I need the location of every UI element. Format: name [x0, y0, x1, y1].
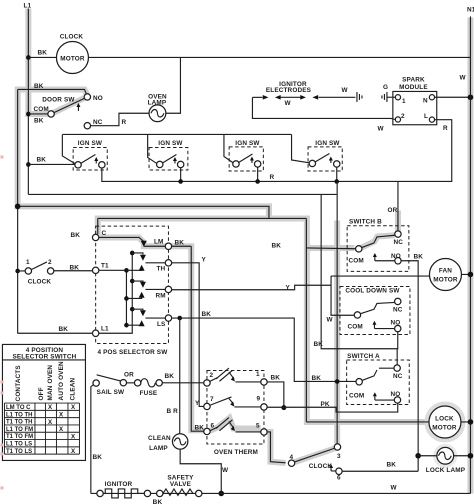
wire clock motor to N1 (top bus)	[88, 56, 470, 58]
node dot fan N1	[468, 272, 474, 278]
svg-text:LM TO C: LM TO C	[6, 405, 31, 411]
svg-text:N: N	[423, 97, 428, 104]
switch IGN SW 4	[292, 134, 343, 171]
svg-text:NO: NO	[391, 253, 401, 260]
dashed oven therm box	[207, 370, 264, 444]
node dot lock lamp junction	[415, 453, 421, 459]
svg-text:T1 TO LS: T1 TO LS	[6, 449, 32, 455]
svg-text:BK: BK	[386, 461, 396, 468]
svg-text:BK: BK	[270, 374, 280, 381]
svg-text:L1 TO TH: L1 TO TH	[6, 412, 33, 418]
wire fan motor feed	[331, 275, 429, 277]
svg-text:OVEN THERM: OVEN THERM	[214, 449, 258, 456]
svg-text:L1 TO LS: L1 TO LS	[6, 442, 32, 448]
wire LM contact line	[144, 245, 166, 247]
svg-text:COM: COM	[348, 257, 363, 264]
svg-text:IGN SW: IGN SW	[78, 140, 103, 147]
switch cool down sw	[340, 286, 410, 334]
svg-text:LAMP: LAMP	[148, 100, 167, 107]
node dot lock motor N1	[468, 419, 474, 425]
node dot PK junction	[281, 405, 286, 410]
wire switch B COM feed	[306, 247, 355, 250]
wire oven lamp to motor wire	[166, 57, 181, 113]
edge artifact marks	[0, 155, 3, 489]
lamp oven lamp	[148, 93, 167, 121]
wire clean lamp to bottom bus (W)	[180, 449, 221, 493]
svg-text:NC: NC	[393, 373, 403, 380]
table row labels	[6, 405, 33, 455]
svg-text:W: W	[390, 484, 397, 491]
svg-text:Y: Y	[201, 256, 206, 263]
svg-text:BK: BK	[164, 373, 174, 380]
motor lock motor	[429, 406, 461, 438]
lock lamp highlight ring	[435, 445, 456, 466]
wire electrodes return loop	[252, 97, 395, 119]
contacts RM row	[126, 281, 165, 298]
svg-text:L1: L1	[101, 325, 109, 332]
wire BK to clock motor	[28, 56, 56, 58]
wire fan motor to N1	[461, 273, 470, 275]
svg-text:NO: NO	[390, 319, 400, 326]
wire cool down COM feed from fan wire	[331, 276, 354, 315]
coil safety valve	[157, 475, 202, 497]
switch IGN SW 2	[148, 134, 188, 170]
svg-text:CLEAN: CLEAN	[69, 377, 76, 400]
switch A assembly	[347, 353, 410, 405]
svg-text:BK: BK	[34, 117, 44, 124]
svg-text:MOTOR: MOTOR	[60, 55, 85, 62]
wire left vertical to selector L1	[18, 332, 93, 334]
switch sail sw	[93, 375, 127, 396]
highlighted N1 line	[467, 17, 473, 493]
wire sail sw feed riser	[91, 385, 94, 494]
svg-text:BK: BK	[271, 242, 281, 249]
switch 4 pos selector	[92, 226, 171, 343]
svg-text:FUSE: FUSE	[140, 390, 158, 397]
svg-text:1: 1	[256, 371, 260, 378]
svg-text:OR: OR	[124, 371, 134, 378]
svg-text:BK: BK	[36, 156, 46, 163]
svg-text:9: 9	[256, 395, 260, 402]
svg-text:R: R	[443, 125, 448, 132]
wire PK oven 9 to switch A NO	[267, 403, 398, 412]
svg-text:2: 2	[48, 259, 52, 266]
svg-text:LOCK: LOCK	[435, 415, 454, 422]
wire R bus to clock-3 vertical	[336, 181, 338, 443]
wire oven therm 5 to clock 4	[267, 432, 286, 463]
svg-text:5: 5	[256, 422, 260, 429]
table grid	[4, 403, 79, 454]
wire LM to clean riser	[172, 245, 192, 247]
lock motor highlight ring	[426, 403, 463, 440]
svg-text:CLOCK: CLOCK	[28, 278, 52, 285]
wire L1 vertical main	[27, 8, 29, 194]
svg-text:MAN OVEN: MAN OVEN	[47, 365, 54, 401]
svg-text:2: 2	[209, 372, 213, 379]
contacts TH row	[126, 253, 165, 271]
svg-text:RM: RM	[155, 292, 165, 299]
svg-text:MOTOR: MOTOR	[433, 276, 458, 283]
svg-text:BK: BK	[313, 341, 323, 348]
svg-text:4 POS SELECTOR SW: 4 POS SELECTOR SW	[97, 349, 168, 356]
table 4 position selector switch	[2, 344, 85, 460]
fuse F1	[127, 379, 163, 397]
svg-text:BK: BK	[311, 375, 321, 382]
svg-text:4: 4	[289, 454, 293, 461]
node dot N on N1	[468, 94, 474, 100]
svg-text:1: 1	[402, 98, 406, 105]
wire cool down NO to switch A NC	[321, 194, 398, 348]
svg-text:IGN SW: IGN SW	[235, 140, 260, 147]
svg-text:3: 3	[337, 453, 341, 460]
switch IGN SW 1	[62, 134, 107, 170]
wire switch B NO down to lock lamp junction	[401, 261, 418, 472]
node dot LS branch	[177, 316, 182, 321]
node junction dot L1-motor tap	[26, 55, 31, 60]
svg-text:BK: BK	[58, 326, 68, 333]
svg-text:SWITCH B: SWITCH B	[349, 218, 382, 225]
wire selector L1 bus B	[99, 251, 135, 334]
svg-text:MODULE: MODULE	[399, 84, 428, 91]
contact triangle C-LM	[141, 241, 147, 247]
svg-text:NO: NO	[93, 95, 103, 102]
wire bus from L1 to right (y=194)	[28, 193, 336, 195]
svg-text:COM: COM	[347, 323, 362, 330]
svg-text:W: W	[326, 316, 333, 323]
svg-text:BK: BK	[92, 454, 102, 461]
wire selector T1 bus A	[99, 268, 129, 327]
svg-text:1: 1	[26, 259, 30, 266]
svg-text:IGN SW: IGN SW	[315, 140, 340, 147]
contacts LS row	[126, 309, 165, 326]
svg-text:BK: BK	[70, 232, 80, 239]
svg-text:BK: BK	[194, 424, 204, 431]
svg-text:Y: Y	[195, 400, 200, 407]
switch clock door-lock contacts	[288, 444, 342, 482]
svg-text:TH: TH	[156, 265, 165, 272]
svg-text:NC: NC	[393, 239, 403, 246]
thermostat contact 2-1	[204, 368, 267, 386]
wire door NC to oven lamp	[91, 113, 150, 125]
svg-text:LOCK LAMP: LOCK LAMP	[426, 467, 466, 474]
motor fan motor	[429, 258, 461, 290]
svg-text:NC: NC	[93, 119, 103, 126]
svg-text:N1: N1	[467, 6, 474, 13]
ground G chassis	[382, 84, 395, 102]
switch IGN SW 3	[224, 134, 263, 171]
motor M1 clock motor	[56, 33, 88, 73]
thermostat contact 6-5	[204, 418, 267, 436]
svg-text:ELECTRODES: ELECTRODES	[266, 87, 312, 94]
svg-text:R: R	[121, 119, 126, 126]
svg-text:G: G	[383, 84, 388, 91]
wire fuse to oven therm 2	[162, 382, 203, 384]
wire main drop to lock motor	[305, 218, 307, 422]
svg-text:PK: PK	[320, 401, 329, 408]
wire LS to switch A COM	[172, 318, 356, 381]
svg-text:L: L	[424, 113, 428, 120]
wire C riser	[97, 218, 99, 234]
wire bottom bus	[91, 492, 471, 494]
svg-text:Y: Y	[285, 284, 290, 291]
wire spark module N to N1	[435, 96, 471, 98]
svg-text:SAIL SW: SAIL SW	[97, 389, 125, 396]
node junction bus2 left	[15, 204, 21, 210]
svg-text:L1 TO FM: L1 TO FM	[6, 427, 33, 433]
IC U1 spark module	[393, 76, 437, 124]
svg-text:2: 2	[401, 113, 405, 120]
thermostat contact 7-9	[204, 395, 267, 410]
wire lock motor feed	[306, 421, 429, 423]
spark gap earth left	[341, 87, 362, 102]
svg-text:LAMP: LAMP	[149, 445, 168, 452]
svg-text:W: W	[222, 467, 229, 474]
svg-text:T1 TO FM: T1 TO FM	[6, 434, 33, 440]
svg-text:7: 7	[210, 396, 214, 403]
switch clock timer contacts 1-2	[15, 259, 92, 286]
wire bus2 door-return to right	[18, 206, 269, 218]
svg-text:LS: LS	[157, 321, 166, 328]
lamp clean lamp	[148, 434, 188, 452]
svg-text:W: W	[341, 87, 348, 94]
svg-text:AUTO OVEN: AUTO OVEN	[58, 361, 65, 400]
svg-text:IGNITOR: IGNITOR	[105, 481, 133, 488]
svg-text:CONTACTS: CONTACTS	[15, 365, 22, 402]
svg-text:C: C	[101, 230, 106, 237]
switch door SW	[28, 83, 102, 129]
wire switch A NC riser	[396, 349, 398, 365]
wire selector C to LM contact	[99, 237, 144, 241]
wire TH to oven therm 7 (Y)	[172, 263, 204, 407]
svg-text:W: W	[377, 125, 384, 132]
svg-text:NO: NO	[390, 391, 400, 398]
svg-text:R: R	[269, 174, 274, 181]
wire R bus of ignition switches	[102, 120, 452, 184]
svg-text:L1: L1	[23, 2, 31, 9]
svg-text:OR: OR	[387, 207, 397, 214]
svg-text:CLOCK: CLOCK	[60, 33, 84, 40]
wire BK feed to ign sw 1	[28, 163, 75, 165]
svg-text:DOOR SW: DOOR SW	[42, 96, 75, 103]
node junction dot L1-door COM tap	[26, 112, 31, 117]
wire door NO return to left vertical	[18, 89, 87, 94]
switch B assembly	[347, 218, 409, 271]
svg-text:SWITCH A: SWITCH A	[347, 353, 380, 360]
svg-text:COOL DOWN SW: COOL DOWN SW	[345, 287, 400, 294]
wire clock 6 to lock lamp riser	[342, 470, 418, 472]
svg-text:CLOCK: CLOCK	[309, 463, 333, 470]
wire C-line y=218	[98, 217, 307, 219]
svg-text:W: W	[459, 74, 466, 81]
svg-text:BK: BK	[174, 239, 184, 246]
svg-text:OFF: OFF	[38, 387, 45, 400]
svg-text:COM: COM	[349, 392, 364, 399]
svg-text:6: 6	[337, 475, 341, 482]
svg-text:CLEAN: CLEAN	[148, 435, 171, 442]
wire ignition distribution bus y=134	[62, 133, 291, 135]
svg-text:MOTOR: MOTOR	[432, 424, 457, 431]
svg-text:COM: COM	[33, 106, 48, 113]
wire oven therm 1 to PK line	[267, 382, 284, 408]
svg-text:T1 TO TH: T1 TO TH	[6, 420, 33, 426]
svg-text:T1: T1	[101, 262, 109, 269]
node dot on switch A com wire	[335, 379, 340, 384]
table X marks	[48, 404, 76, 455]
svg-text:IGN SW: IGN SW	[158, 140, 183, 147]
svg-text:VALVE: VALVE	[170, 481, 192, 488]
wire lock motor to N1	[461, 421, 471, 423]
wire clean riser down to oven therm 6	[191, 246, 204, 431]
svg-text:B R: B R	[166, 408, 178, 415]
ignitor heater element	[97, 481, 163, 504]
node dot W bottom bus	[218, 491, 224, 497]
wire BR clean lamp	[179, 318, 181, 434]
svg-text:W: W	[284, 100, 291, 107]
ignitor electrodes	[252, 81, 355, 107]
svg-text:BK: BK	[37, 49, 47, 56]
lamp lock lamp	[418, 447, 466, 474]
wire switch B NC riser to R bus (OR)	[397, 181, 399, 230]
wire lock lamp to N1	[454, 455, 471, 457]
highlighted wire path: L1 through door switch to selector C and switch B	[18, 8, 429, 463]
svg-text:LM: LM	[154, 238, 164, 245]
svg-text:BK: BK	[413, 253, 423, 260]
svg-text:BK: BK	[201, 311, 211, 318]
node N1 vertical	[459, 6, 474, 493]
wire left vertical x=17	[17, 89, 19, 333]
svg-text:SPARK: SPARK	[402, 76, 425, 83]
node dot lock lamp N1	[468, 453, 474, 459]
svg-text:FAN: FAN	[439, 267, 452, 274]
svg-text:BK: BK	[153, 499, 163, 504]
wire RM to fan (Y)	[172, 285, 331, 290]
svg-text:NC: NC	[393, 306, 403, 313]
node junction dot L1-ignition tap	[26, 162, 31, 167]
